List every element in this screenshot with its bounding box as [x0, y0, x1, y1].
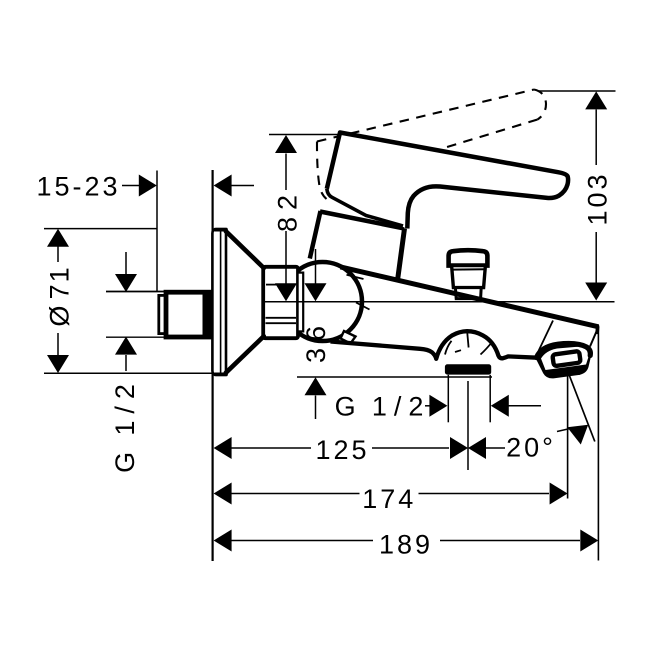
svg-text:Ø 71: Ø 71 [44, 265, 74, 326]
svg-text:82: 82 [273, 188, 303, 232]
svg-text:15-23: 15-23 [36, 171, 120, 201]
svg-text:125: 125 [315, 435, 369, 465]
svg-text:20°: 20° [506, 433, 556, 463]
svg-text:G 1/2: G 1/2 [110, 377, 140, 473]
svg-text:174: 174 [362, 484, 416, 514]
svg-text:189: 189 [379, 530, 433, 560]
svg-text:G 1/2: G 1/2 [335, 392, 431, 422]
svg-text:103: 103 [582, 171, 612, 225]
